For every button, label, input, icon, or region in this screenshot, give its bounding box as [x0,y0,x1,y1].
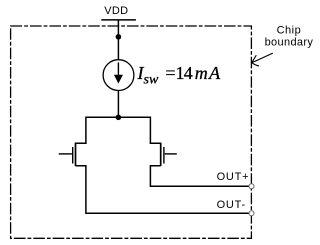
svg-text:Chip: Chip [277,24,302,36]
svg-text:VDD: VDD [104,5,128,17]
svg-text:OUT-: OUT- [217,199,246,211]
svg-text:OUT+: OUT+ [217,171,250,183]
svg-text:boundary: boundary [265,36,314,48]
svg-text:Isw =14mA: Isw =14mA [137,63,222,88]
